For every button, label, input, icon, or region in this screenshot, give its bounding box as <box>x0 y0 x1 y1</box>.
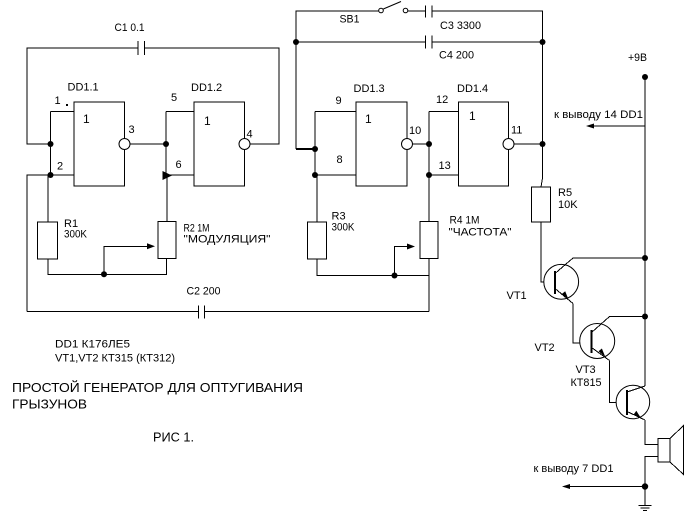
wire top feedback C1 right segment to DD1.2 output <box>145 48 280 144</box>
capacitor C1 <box>115 22 145 55</box>
wire wiper arrow to R2 <box>104 243 155 274</box>
svg-text:VT3: VT3 <box>576 364 596 376</box>
node C4 right <box>540 39 546 45</box>
svg-text:8: 8 <box>337 154 343 166</box>
wire speaker bottom to ground node <box>645 457 658 487</box>
ground <box>639 487 652 511</box>
svg-text:1: 1 <box>83 112 90 126</box>
svg-text:6: 6 <box>176 159 182 171</box>
svg-text:SB1: SB1 <box>340 14 360 26</box>
wire input tie pins 8-9 DD1.3 <box>315 112 356 176</box>
wire DD1.1 output to DD1.2 input <box>130 143 166 145</box>
wire pin2 to C2 left bus <box>27 175 51 312</box>
svg-text:10: 10 <box>409 125 421 137</box>
node pin6 junction DD1.2 <box>163 171 173 180</box>
wire R2 top to pin6 <box>166 175 168 222</box>
wire to pin 14 DD1 arrow <box>554 109 645 129</box>
wire pin8 node down to R3 <box>316 175 318 222</box>
svg-text:R5: R5 <box>558 187 572 199</box>
wire input tie pins 12-13 DD1.4 <box>429 112 459 176</box>
svg-text:+9В: +9В <box>628 52 647 64</box>
svg-text:9: 9 <box>336 95 342 107</box>
svg-text:ПРОСТОЙ ГЕНЕРАТОР ДЛЯ ОПТУГИВА: ПРОСТОЙ ГЕНЕРАТОР ДЛЯ ОПТУГИВАНИЯ <box>12 380 303 395</box>
switch SB1 <box>340 2 408 26</box>
wire R4 top to pin13 <box>428 175 430 222</box>
transistor Q2 VT2 <box>535 317 615 361</box>
svg-text:1: 1 <box>55 95 61 107</box>
wire VT2 emitter to VT3 base <box>610 361 628 403</box>
node input junction DD1.1 <box>48 141 54 147</box>
node pin13 junction DD1.4 <box>426 172 432 178</box>
node input junction DD1.2 <box>163 141 169 147</box>
svg-text:11: 11 <box>511 125 522 137</box>
svg-text:2: 2 <box>57 161 63 173</box>
node input junction DD1.4 <box>426 141 432 147</box>
wire VT3 emitter to speaker <box>645 420 658 445</box>
wire C2 right segment <box>205 311 430 313</box>
wire input tie pins 5-6 DD1.2 <box>166 112 194 176</box>
svg-text:13: 13 <box>439 160 451 172</box>
svg-text:3: 3 <box>129 124 135 136</box>
op-amp U1 gate DD1.1 <box>68 82 131 187</box>
wire pin2 node down to R1 <box>47 175 49 222</box>
wire R1 bottom to R2 bottom <box>48 259 167 275</box>
wire C3 to right node <box>432 11 543 42</box>
svg-text:к выводу 14 DD1: к выводу 14 DD1 <box>554 109 643 121</box>
svg-text:1: 1 <box>365 112 372 126</box>
svg-text:12: 12 <box>436 94 448 106</box>
svg-text:DD1.2: DD1.2 <box>191 82 222 94</box>
svg-text:VT2: VT2 <box>535 342 555 354</box>
svg-text:к выводу 7 DD1: к выводу 7 DD1 <box>534 463 614 475</box>
wire SB1 to C3 <box>408 10 426 12</box>
speaker BA1 <box>658 426 684 475</box>
node pin2 junction DD1.1 <box>48 172 54 178</box>
node input junction DD1.3 <box>312 146 318 152</box>
resistor R2 potentiometer <box>158 222 271 259</box>
node pin8 junction DD1.3 <box>312 172 318 178</box>
resistor R3 <box>308 211 356 260</box>
transistor Q1 VT1 <box>507 258 579 304</box>
transistor Q3 VT3 <box>571 364 650 420</box>
wire top feedback C1 left segment <box>27 48 138 144</box>
svg-text:C4 200: C4 200 <box>439 50 474 62</box>
svg-text:R4 1M: R4 1M <box>450 215 480 227</box>
pin dot artifact <box>66 104 68 106</box>
svg-text:DD1 К176ЛЕ5: DD1 К176ЛЕ5 <box>55 339 130 351</box>
svg-text:4: 4 <box>247 129 253 141</box>
resistor R1 <box>38 218 88 259</box>
svg-text:C1 0.1: C1 0.1 <box>115 22 145 34</box>
wire VT1 emitter to VT2 base <box>573 304 592 344</box>
svg-text:10K: 10K <box>558 199 578 211</box>
wire feedback into DD1.3 inputs <box>296 148 315 150</box>
node VT2 collector rail <box>642 314 648 320</box>
capacitor C3 <box>426 6 482 33</box>
wire to pin 7 DD1 arrow <box>534 463 646 489</box>
wire R3 bottom to R4 line <box>317 259 429 276</box>
svg-text:1: 1 <box>204 114 211 128</box>
wire wiper arrow to R4 <box>395 244 416 276</box>
svg-text:300K: 300K <box>64 229 88 241</box>
svg-text:VT1,VT2 КТ315 (КТ312): VT1,VT2 КТ315 (КТ312) <box>55 353 175 365</box>
wire +9V rail <box>644 77 646 386</box>
wire R4 bottom to C2 <box>428 259 430 312</box>
node DD1.4 output <box>540 141 546 147</box>
op-amp U3 gate DD1.3 <box>354 83 413 186</box>
node VT1 collector rail <box>642 255 648 261</box>
svg-text:5: 5 <box>171 92 177 104</box>
svg-text:C3 3300: C3 3300 <box>440 20 481 32</box>
svg-text:DD1.3: DD1.3 <box>354 83 385 95</box>
wire R5 bottom to VT1 base <box>541 222 555 282</box>
node ground junction <box>642 483 648 489</box>
node wiper tap R1R2 <box>101 271 107 277</box>
wire C4 branch left segment <box>296 41 426 43</box>
svg-text:РИС 1.: РИС 1. <box>153 430 194 445</box>
svg-text:"ЧАСТОТА": "ЧАСТОТА" <box>449 227 512 239</box>
node +9V terminal <box>642 74 648 80</box>
svg-text:DD1.1: DD1.1 <box>68 82 99 94</box>
wire SB1 branch left segment <box>296 11 379 149</box>
capacitor C2 <box>187 286 221 319</box>
wire DD1.3 output to DD1.4 input <box>413 143 430 145</box>
node wiper tap R3R4 <box>392 273 398 279</box>
wire C4 right segment <box>432 41 543 43</box>
wire output node down to R5 <box>542 42 544 178</box>
svg-text:C2 200: C2 200 <box>187 286 221 298</box>
resistor R4 potentiometer <box>420 215 512 259</box>
wire C2 left segment <box>27 311 199 313</box>
wire VT2 collector to rail <box>610 316 646 318</box>
wire VT1 collector to rail <box>573 257 645 259</box>
svg-text:КТ815: КТ815 <box>571 377 602 389</box>
resistor R5 <box>532 187 579 222</box>
svg-text:VT1: VT1 <box>507 290 527 302</box>
node C4 left <box>293 39 299 45</box>
svg-text:DD1.4: DD1.4 <box>457 83 488 95</box>
wire DD1.4 output to node <box>514 143 543 145</box>
svg-text:1: 1 <box>469 109 476 123</box>
wire input tie pins 1-2 DD1.1 <box>51 112 75 176</box>
op-amp U2 gate DD1.2 <box>191 82 250 186</box>
svg-text:300K: 300K <box>332 222 356 234</box>
svg-text:"МОДУЛЯЦИЯ": "МОДУЛЯЦИЯ" <box>184 234 271 246</box>
svg-text:ГРЫЗУНОВ: ГРЫЗУНОВ <box>12 397 87 412</box>
op-amp U4 gate DD1.4 <box>457 83 514 186</box>
capacitor C4 <box>426 36 475 62</box>
